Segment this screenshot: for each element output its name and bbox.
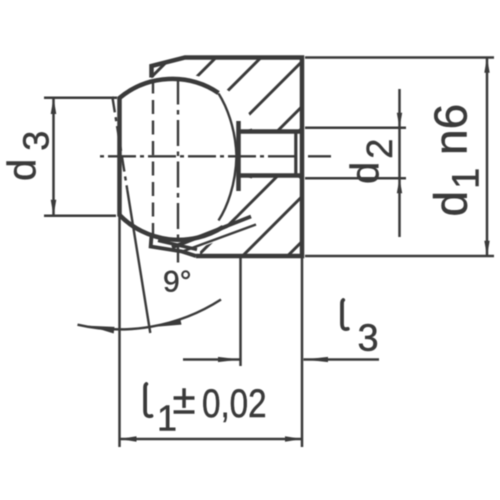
lip inner line: [158, 241, 197, 250]
d3 arrow bottom: [51, 200, 57, 216]
l1 label: [145, 384, 151, 416]
hole entry chamfer bottom: [242, 175, 252, 178]
l3 arrow right: [304, 357, 328, 362]
socket rim curve on ball: [219, 94, 237, 221]
hole d2 bottom edge: [240, 173, 302, 178]
bottom lip beak: [151, 236, 196, 256]
horizontal centerline: [100, 155, 331, 157]
cone relief lower edge: [181, 225, 256, 253]
svg-text:9°: 9°: [163, 266, 192, 299]
d1 arrow top: [484, 58, 489, 73]
9 degree tilted axis lower solid part: [127, 190, 150, 333]
l1 extension left: [118, 216, 121, 447]
l1 extension right: [301, 257, 304, 447]
svg-text:3: 3: [358, 318, 379, 360]
hole mouth chamfer edge: [294, 130, 297, 177]
svg-text:±: ±: [173, 376, 196, 423]
9 degree arrow left: [89, 326, 115, 334]
housing profile: [152, 58, 303, 257]
d2 extension bottom: [305, 177, 406, 180]
hole entry chamfer top: [242, 130, 252, 133]
d1 extension top: [305, 56, 494, 59]
svg-text:0,02: 0,02: [202, 381, 267, 426]
l1 dimension line: [120, 438, 303, 441]
mouth chamfer top: [297, 128, 303, 134]
housing section hatching: [140, 50, 320, 265]
d3 extension bottom: [44, 215, 116, 218]
hole d2 bore mask: [237, 130, 303, 178]
d2 extension top: [305, 127, 406, 130]
hidden lip line (dashed): [152, 80, 154, 235]
d3 arrow top: [51, 98, 57, 114]
d1 dimension line: [486, 58, 489, 257]
9 degree arc: [78, 300, 222, 330]
hole d2 top edge: [240, 129, 302, 134]
l3 dimension left part: [183, 358, 241, 361]
d2 arrow bottom: [397, 178, 402, 193]
ball bottom arc: [120, 215, 224, 240]
l3 extension line: [239, 257, 242, 366]
d2 arrow top: [397, 113, 402, 128]
cone relief mask: [175, 218, 257, 254]
l3 arrow left: [218, 357, 241, 362]
d2 dimension line: [398, 89, 401, 237]
cone relief upper edge: [172, 217, 251, 248]
beak inner white: [151, 239, 200, 259]
d1 extension bottom: [305, 255, 494, 258]
d1 arrow bottom: [484, 241, 489, 256]
9 degree tilted axis: [112, 97, 127, 191]
ball flat face: [117, 97, 122, 217]
seat bottom edge: [236, 121, 241, 191]
d3 extension top: [44, 97, 117, 100]
l1 arrow left: [120, 436, 137, 442]
l3 dimension right part: [304, 358, 380, 361]
d3 dimension line: [52, 98, 55, 216]
ball top arc: [120, 79, 219, 98]
mouth chamfer bottom: [297, 174, 303, 180]
l3 label: [342, 300, 348, 329]
ball mask (uncut ball area): [95, 74, 261, 240]
vertical ball centerline: [177, 79, 179, 263]
9 degree arrow right: [158, 318, 182, 327]
l1 arrow right: [285, 436, 302, 442]
